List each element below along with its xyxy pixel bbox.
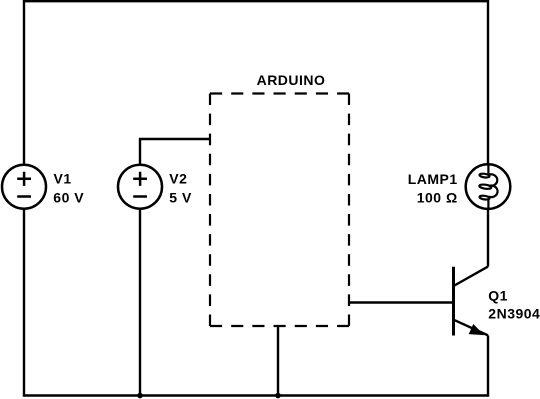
svg-text:Q1: Q1 [488,287,508,303]
wire top rail: left riser, top wire, right riser to lamp [24,1,488,165]
junction node V2/bottom rail [137,393,143,399]
svg-text:5 V: 5 V [169,189,192,205]
wire arduino bottom to bottom rail [277,326,279,396]
arduino dashed box [210,94,349,327]
wire emitter riser to bottom rail [487,335,489,395]
transistor Q1 [454,267,489,336]
emitter arrow [469,325,483,335]
svg-text:2N3904: 2N3904 [488,305,540,321]
svg-text:60 V: 60 V [53,189,84,205]
svg-text:ARDUINO: ARDUINO [257,72,326,88]
wire V2 top to arduino box [140,139,210,166]
svg-text:V1: V1 [54,170,72,186]
svg-text:100 Ω: 100 Ω [417,189,458,205]
wire V2 bottom to bottom rail [139,208,141,395]
junction node arduino/bottom rail [275,393,281,399]
wire lamp bottom / collector riser [487,208,489,266]
lamp filament coil [479,164,497,210]
voltage source V2 [118,165,162,209]
wire bottom rail [24,394,488,396]
lamp LAMP1 [466,164,511,209]
wire arduino to base of Q1 [349,301,454,303]
voltage source V1 [2,165,46,209]
wire V1 bottom to bottom rail [23,208,25,395]
svg-text:LAMP1: LAMP1 [408,171,458,187]
svg-text:V2: V2 [169,170,187,186]
